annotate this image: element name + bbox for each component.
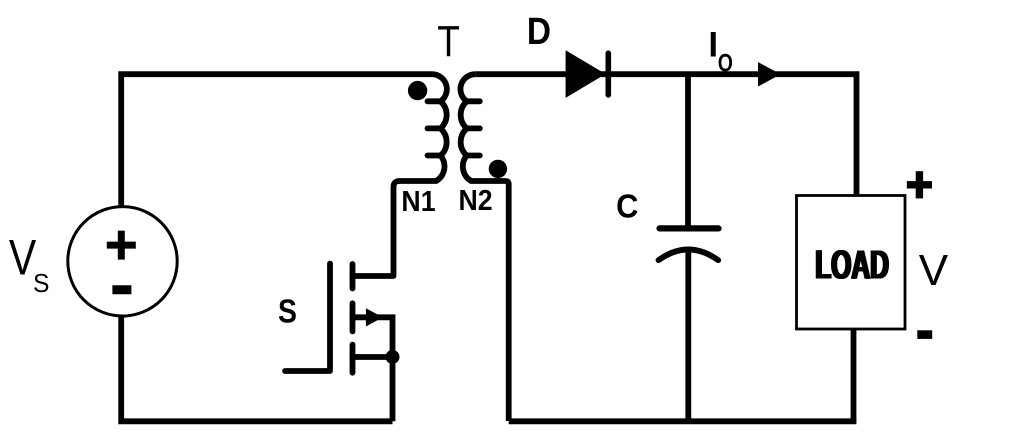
svg-text:I: I <box>708 26 718 65</box>
secondary phase dot <box>489 160 507 178</box>
primary phase dot <box>408 81 427 100</box>
transformer T primary winding N1 <box>350 74 447 276</box>
body lead and vertical to source <box>350 317 393 421</box>
capacitor C top lead <box>685 74 691 228</box>
svg-text:C: C <box>616 187 638 224</box>
gate vertical line <box>327 264 333 369</box>
svg-text:LOAD: LOAD <box>817 243 891 288</box>
wire top-left from Vs to primary winding <box>121 74 432 207</box>
svg-text:O: O <box>718 49 733 77</box>
svg-text:N2: N2 <box>459 184 493 216</box>
svg-text:T: T <box>437 16 460 66</box>
gate lead <box>285 368 330 374</box>
drain contact bar <box>350 264 356 289</box>
plus symbol inside source <box>107 231 136 260</box>
transformer T secondary winding N2 <box>460 74 508 421</box>
label LOAD <box>814 243 890 288</box>
MOSFET switch S <box>285 264 393 422</box>
svg-text:S: S <box>33 270 49 299</box>
voltage source VS circle <box>68 207 177 316</box>
source lead <box>350 354 393 360</box>
svg-text:D: D <box>527 10 551 52</box>
body arrow of MOSFET <box>366 308 383 326</box>
minus symbol at load <box>917 330 932 339</box>
capacitor C top plate <box>660 225 719 231</box>
svg-text:N1: N1 <box>401 185 435 217</box>
capacitor C curved bottom plate <box>659 250 719 261</box>
plus symbol at load <box>907 171 932 198</box>
svg-text:V: V <box>919 246 949 295</box>
wire bottom-right net (N2 bottom to LOAD bottom) <box>509 418 857 424</box>
body contact bar <box>350 303 356 331</box>
capacitor C bottom lead <box>685 252 691 422</box>
wire bottom-left from Vs to MOSFET source <box>121 316 392 421</box>
output current Io arrowhead <box>758 62 781 86</box>
svg-text:S: S <box>278 292 297 330</box>
diode D triangle <box>566 50 606 98</box>
wire top-right from secondary winding to LOAD (through diode, C junction) <box>475 74 856 197</box>
LOAD box <box>797 196 906 330</box>
source contact bar <box>350 345 356 373</box>
source junction dot <box>386 350 400 364</box>
wire LOAD bottom lead <box>851 327 857 421</box>
diode D cathode bar <box>605 53 611 95</box>
minus symbol inside source <box>112 285 131 294</box>
